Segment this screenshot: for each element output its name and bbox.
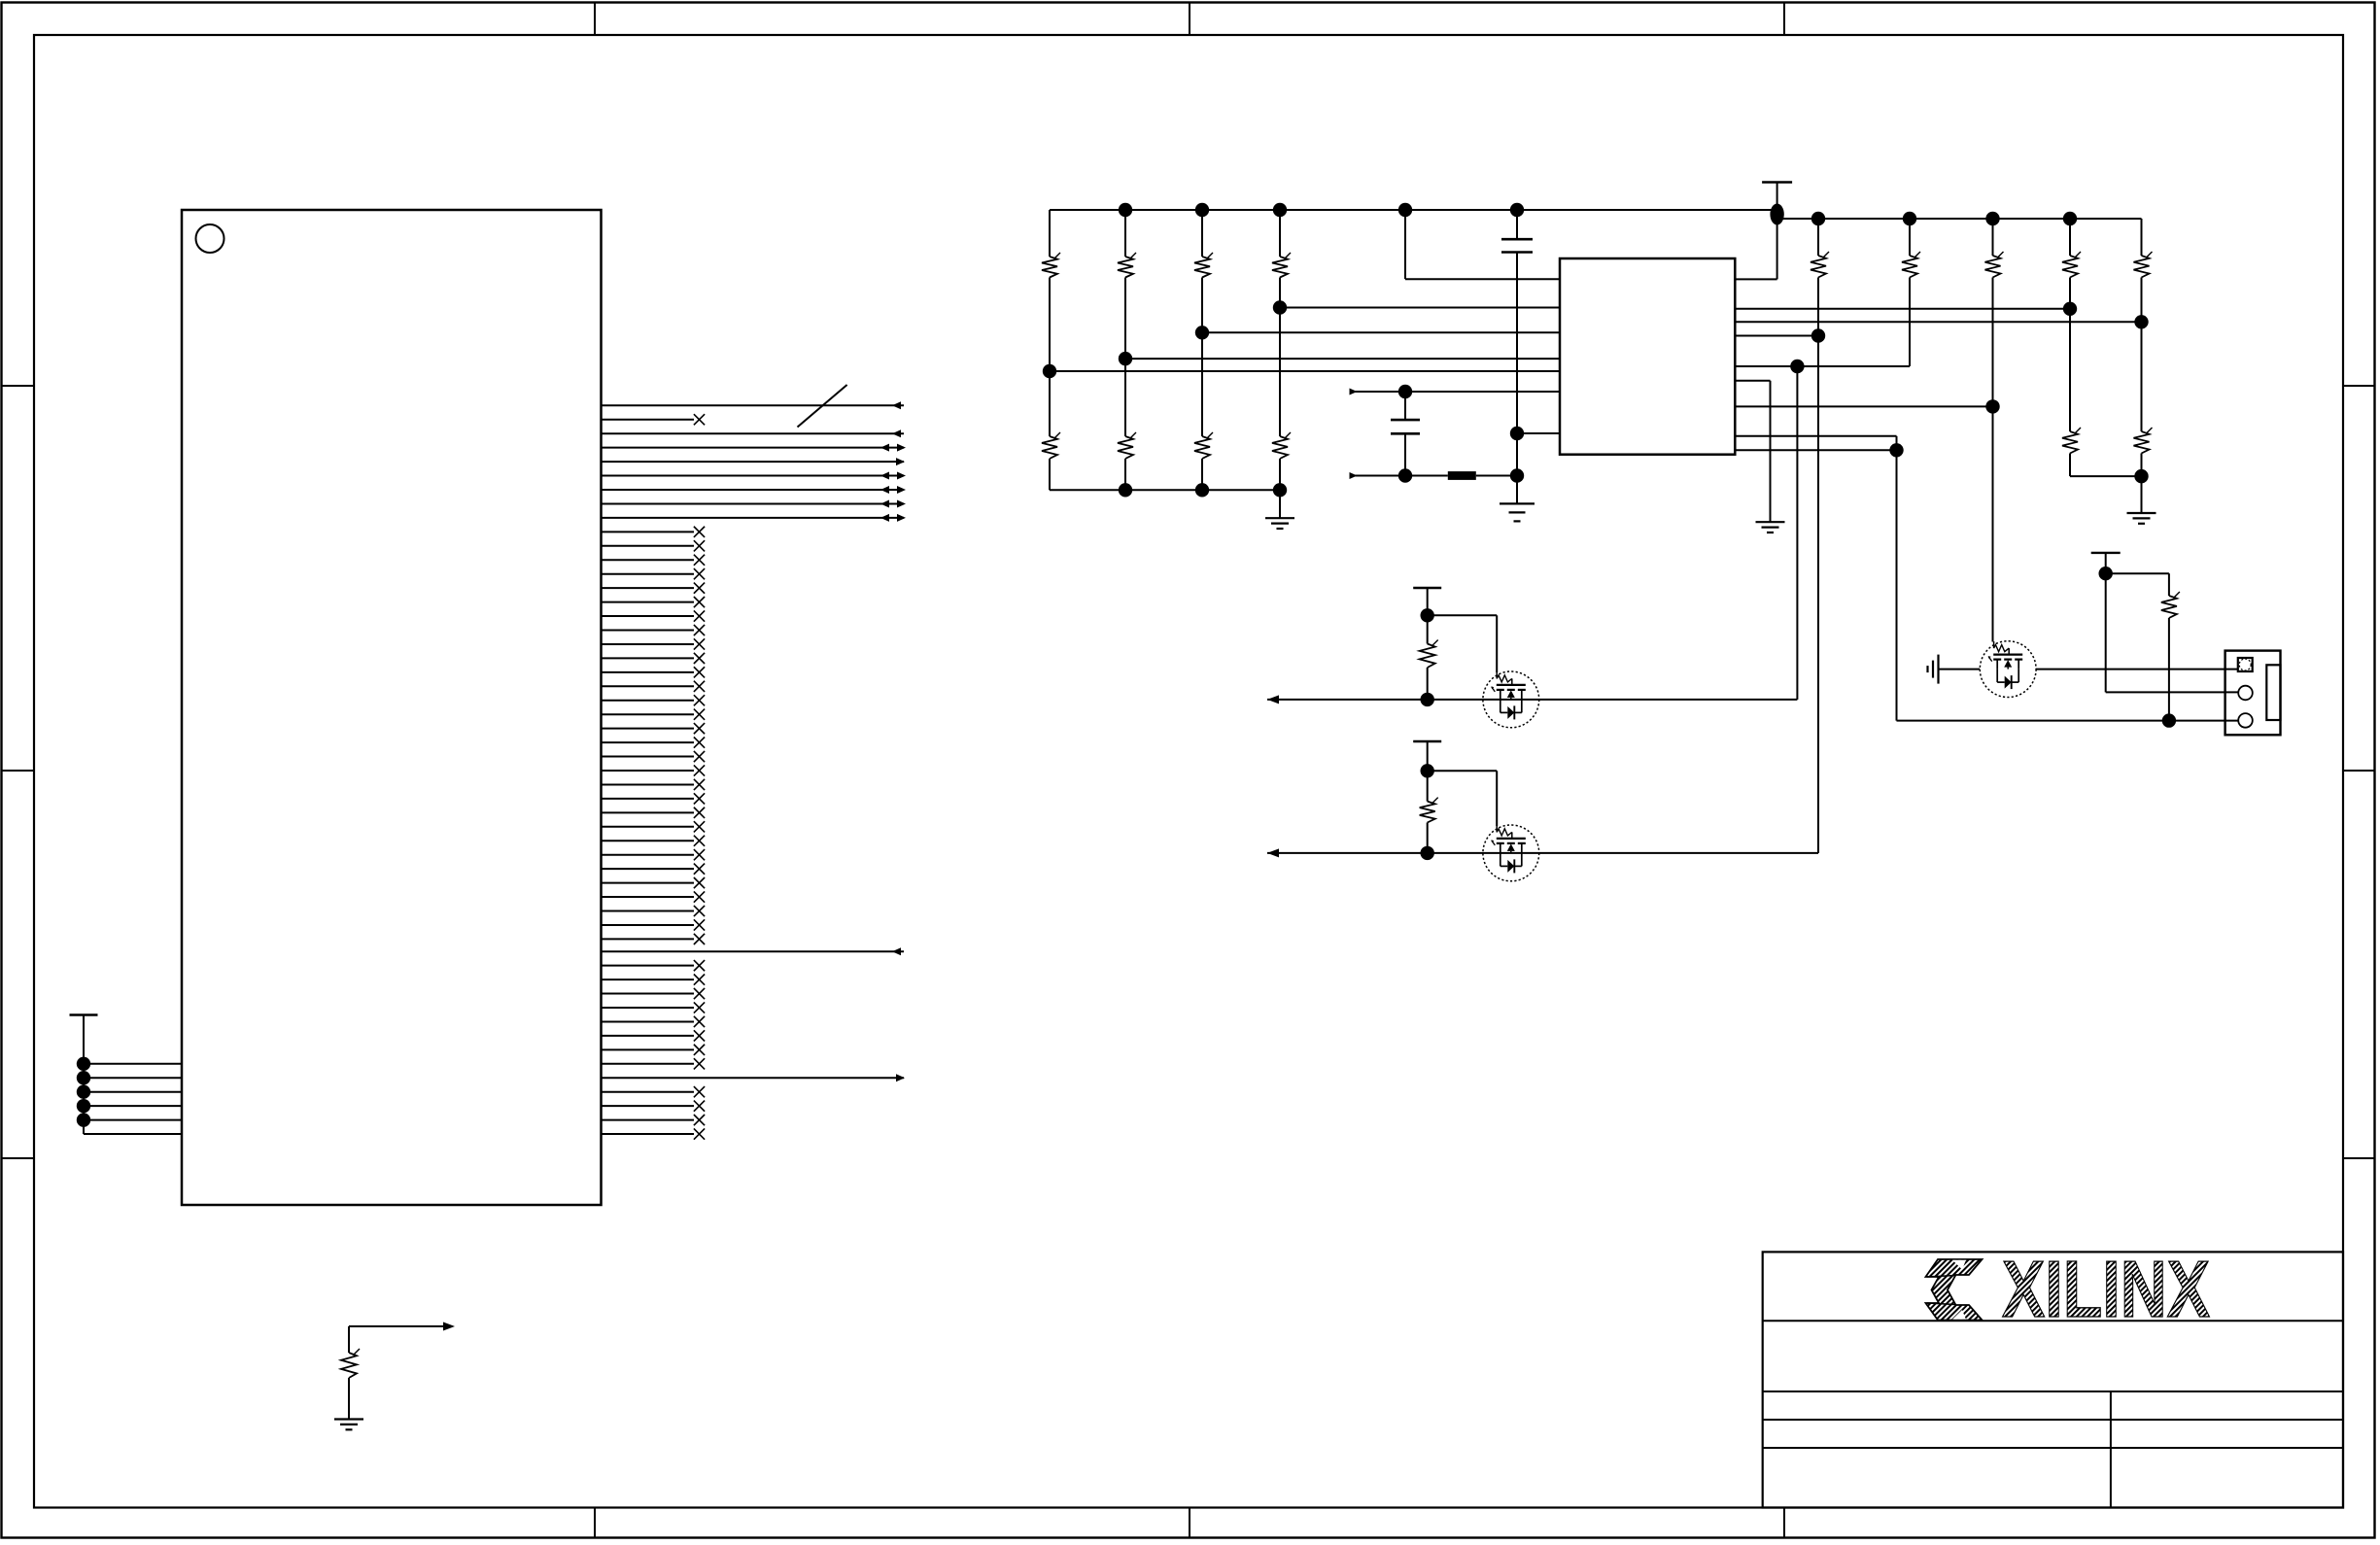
wire U2 pin — [1735, 405, 1992, 407]
config PROM U2 body — [1560, 258, 1735, 455]
resistor R11 — [1985, 252, 2004, 278]
resistor R8 — [1272, 432, 1291, 459]
wire — [1776, 183, 1778, 280]
wire — [1516, 433, 1518, 476]
U1 pin line 53 — [602, 1128, 706, 1139]
wire U2 pin — [1735, 365, 1910, 367]
power VCC rail bar — [70, 1013, 98, 1015]
U1 pin line 47 — [602, 1045, 706, 1055]
ground — [1756, 522, 1785, 532]
U1 pin line 5 — [602, 458, 906, 465]
wire — [2141, 454, 2143, 514]
wire — [1516, 210, 1518, 239]
transistor Q2 — [1483, 825, 1539, 881]
wire — [1427, 588, 1429, 615]
U1 left pin wire 3 — [84, 1091, 182, 1093]
U1 pin line 34 — [602, 864, 706, 875]
Xilinx logo — [1926, 1244, 2211, 1334]
wire node to U2 — [1517, 432, 1560, 434]
wire — [1516, 476, 1518, 504]
wire VCC rail vertical — [83, 1015, 85, 1135]
ground sideways — [1928, 655, 1939, 684]
junction — [1811, 212, 1825, 225]
wire node to U2 pin — [1202, 331, 1560, 333]
U1 pin line 46 — [602, 1030, 706, 1041]
junction power node — [1770, 204, 1783, 225]
junction — [1510, 427, 1524, 440]
U1 pin line 52 — [602, 1115, 706, 1125]
wire — [1770, 381, 1772, 523]
U1 pin line 12 — [602, 555, 706, 566]
U1 pin line 33 — [602, 849, 706, 860]
U1 left pin wire 4 — [84, 1105, 182, 1107]
U1 pin line 10 — [602, 527, 706, 537]
resistor R14 — [2062, 428, 2081, 454]
junction — [1273, 300, 1287, 314]
junction — [1119, 352, 1132, 365]
junction — [1398, 468, 1412, 482]
wire — [2069, 278, 2071, 432]
resistor R7 — [1194, 432, 1213, 459]
wire — [2106, 572, 2169, 574]
capacitor C2 — [1391, 420, 1420, 433]
wire — [1049, 210, 1051, 257]
wire — [1124, 210, 1126, 257]
power VCC bar — [1413, 740, 1441, 742]
U1 pin line 20 — [602, 667, 706, 677]
title block — [1763, 1252, 2343, 1507]
wire to J1 pin2 — [2106, 691, 2238, 693]
transistor Q3 — [1980, 641, 2036, 698]
resistor R16 — [1420, 640, 1438, 669]
U1 pin line 18 — [602, 638, 706, 649]
wire U2 pin — [1735, 308, 2070, 310]
resistor R19 — [341, 1349, 360, 1378]
junction — [1510, 203, 1524, 217]
wire — [2069, 219, 2071, 256]
wire — [1124, 459, 1126, 490]
U1 pin line 16 — [602, 610, 706, 621]
wire — [1427, 741, 1429, 771]
power VCC bar — [1413, 587, 1441, 589]
resistor R3 — [1194, 253, 1213, 278]
power VCC bar — [1762, 181, 1792, 183]
wire — [1796, 366, 1798, 700]
junction — [2134, 469, 2148, 483]
wire — [2141, 219, 2143, 256]
junction — [1421, 608, 1434, 622]
connector J1 — [2225, 651, 2281, 736]
U1 pin line 42 — [602, 975, 706, 985]
wire node to U2 pin — [1280, 307, 1560, 309]
wire — [1049, 459, 1051, 490]
U1 pin line 14 — [602, 583, 706, 594]
wire stub with arrow — [1350, 472, 1448, 479]
U1 pin line 7 — [602, 486, 907, 494]
junction — [1398, 203, 1412, 217]
FPGA U1 body — [182, 210, 602, 1205]
U1 pin line 39 — [602, 934, 706, 944]
U1 pin line 30 — [602, 807, 706, 818]
junction — [2099, 566, 2113, 580]
U1 pin line 38 — [602, 919, 706, 930]
resistor R18 — [2161, 592, 2180, 618]
U1 pin line 2 — [602, 414, 706, 425]
wire — [1279, 459, 1281, 490]
wire — [1909, 278, 1911, 367]
wire — [1896, 450, 1898, 720]
U1 pin line 28 — [602, 779, 706, 790]
junction — [1195, 483, 1209, 497]
U1 pin line 27 — [602, 765, 706, 775]
wire — [1279, 490, 1281, 518]
wire — [1427, 615, 1429, 700]
U1 pin line 32 — [602, 836, 706, 846]
junction — [1043, 364, 1056, 378]
wire U2 pin — [1735, 449, 1896, 451]
resistor R9 — [1811, 252, 1829, 278]
wire — [1404, 210, 1406, 279]
U1 pin line 51 — [602, 1101, 706, 1112]
wire — [1992, 278, 1994, 642]
wire — [1124, 278, 1126, 437]
wire — [1817, 278, 1819, 853]
wire — [1279, 278, 1281, 437]
U1 pin line 9 — [602, 514, 907, 522]
wire — [1939, 669, 1981, 670]
junction rail dot 4 — [77, 1099, 90, 1113]
junction — [2063, 212, 2077, 225]
junction — [2063, 302, 2077, 316]
U1 pin line 11 — [602, 540, 706, 551]
U1 pin line 8 — [602, 499, 907, 507]
wire U2 pin — [1735, 435, 1896, 437]
U1 pin line 15 — [602, 597, 706, 607]
wire — [1992, 219, 1994, 256]
wire drain line — [1267, 848, 1818, 857]
junction rail dot 1 — [77, 1057, 90, 1071]
U1 pin line 44 — [602, 1002, 706, 1013]
junction — [1119, 483, 1132, 497]
wire VCC right bus — [1777, 218, 2142, 220]
junction — [1903, 212, 1916, 225]
junction — [1421, 764, 1434, 777]
junction rail dot 5 — [77, 1113, 90, 1126]
wire — [1279, 210, 1281, 257]
U1 left pin wire 1 — [84, 1063, 182, 1065]
junction rail dot 3 — [77, 1085, 90, 1099]
junction — [2134, 315, 2148, 328]
U1 pin line 25 — [602, 738, 706, 748]
U1 pin line 36 — [602, 891, 706, 902]
wire — [2141, 278, 2143, 432]
resistor R6 — [1118, 432, 1136, 459]
wire — [2069, 454, 2071, 477]
junction — [1985, 399, 1999, 413]
resistor R2 — [1118, 253, 1136, 278]
junction — [2162, 713, 2176, 727]
wire — [1404, 433, 1406, 475]
resistor R4 — [1272, 253, 1291, 278]
U1 pin line 26 — [602, 751, 706, 762]
U1 left pin wire 2 — [84, 1077, 182, 1079]
wire — [2105, 573, 2107, 692]
resistor R10 — [1902, 252, 1920, 278]
junction — [1273, 203, 1287, 217]
U1 pin line 37 — [602, 906, 706, 916]
U1 pin line 3 — [602, 429, 905, 437]
wire — [1817, 219, 1819, 256]
U1 pin line 43 — [602, 988, 706, 999]
resistor R12 — [2062, 252, 2081, 278]
U1 pin line 31 — [602, 821, 706, 832]
U1 pin line 22 — [602, 695, 706, 705]
wire to J1 pin3 — [1897, 720, 2239, 722]
resistor R17 — [1420, 798, 1438, 823]
U1 pin line 49 — [602, 1074, 906, 1081]
ground — [1265, 518, 1294, 529]
junction — [1195, 203, 1209, 217]
wire U2 pin — [1735, 278, 1776, 280]
junction — [1790, 360, 1804, 373]
wire node to U2 pin — [1050, 370, 1560, 372]
wire — [1909, 219, 1911, 256]
wire stub with arrow — [1350, 389, 1561, 395]
U1 pin line 50 — [602, 1086, 706, 1097]
wire — [2168, 618, 2170, 721]
transistor Q1 — [1483, 671, 1539, 728]
wire — [1201, 210, 1203, 257]
U1 pin line 40 — [602, 947, 905, 955]
ground — [1500, 503, 1535, 521]
wire — [1201, 459, 1203, 490]
wire — [2105, 553, 2107, 573]
wire U2 pin — [1735, 321, 2141, 323]
wire — [1049, 278, 1051, 437]
junction — [1889, 443, 1903, 457]
junction — [1195, 326, 1209, 339]
junction — [1421, 846, 1434, 860]
junction — [1985, 212, 1999, 225]
wire node to U2 pin — [1125, 358, 1560, 360]
junction — [1510, 468, 1524, 482]
wire U2 pin — [1735, 380, 1770, 382]
wire — [348, 1326, 350, 1353]
U1 left pin wire 6 — [84, 1133, 182, 1135]
wire — [1404, 392, 1406, 420]
U1 pin line 29 — [602, 793, 706, 804]
U1 pin line 4 — [602, 444, 907, 452]
wire gate feed — [1428, 771, 1498, 826]
wire — [1476, 475, 1517, 477]
U1 pin line 48 — [602, 1058, 706, 1069]
U1 pin line 6 — [602, 472, 907, 480]
junction rail dot 2 — [77, 1071, 90, 1084]
wire — [1201, 278, 1203, 437]
U1 left pin wire 5 — [84, 1119, 182, 1121]
svg-text:XILINX: XILINX — [2002, 1244, 2210, 1334]
junction — [1421, 693, 1434, 706]
wire bottom bus — [1050, 489, 1280, 491]
U1 pin line 21 — [602, 681, 706, 692]
wire — [1427, 771, 1429, 853]
ferrite bead FB1 — [1448, 471, 1476, 480]
resistor R1 — [1042, 253, 1060, 278]
wire — [1516, 253, 1518, 434]
U1 pin line 23 — [602, 709, 706, 720]
junction — [1398, 385, 1412, 398]
wire — [1896, 436, 1898, 451]
U1 pin line 19 — [602, 653, 706, 664]
capacitor C1 — [1501, 239, 1533, 252]
U1 pin line 17 — [602, 625, 706, 635]
wire gate feed — [1428, 615, 1498, 672]
U1 pin line 24 — [602, 723, 706, 734]
resistor R5 — [1042, 432, 1060, 459]
junction — [1273, 483, 1287, 497]
wire — [348, 1378, 350, 1420]
U1 pin line 45 — [602, 1016, 706, 1027]
ground — [334, 1420, 363, 1430]
wire to U2 pin — [1405, 278, 1560, 280]
power VCC bar — [2091, 552, 2121, 554]
junction — [1119, 203, 1132, 217]
U1 pin line 1 — [602, 385, 905, 428]
wire — [2168, 573, 2170, 596]
wire stub with arrow — [349, 1322, 455, 1331]
junction — [1811, 328, 1825, 342]
ground — [2127, 513, 2156, 524]
wire — [2070, 475, 2142, 477]
U1 pin line 35 — [602, 877, 706, 888]
wire U2 pin — [1735, 335, 1818, 337]
wire drain line — [1267, 695, 1797, 704]
U1 pin line 13 — [602, 568, 706, 579]
U1 pin line 41 — [602, 960, 706, 971]
wire VCC top bus — [1050, 209, 1777, 211]
resistor R13 — [2134, 252, 2153, 278]
wire Q3 to J1 pin1 — [2036, 669, 2238, 670]
resistor R15 — [2134, 428, 2153, 454]
